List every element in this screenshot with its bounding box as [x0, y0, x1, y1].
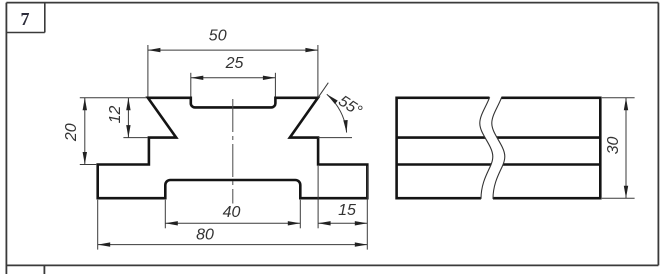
svg-text:20: 20 — [63, 123, 80, 142]
dimension 25 — [191, 73, 276, 97]
dimension 12 — [123, 98, 147, 138]
svg-text:15: 15 — [338, 202, 356, 219]
svg-text:50: 50 — [209, 28, 227, 45]
dimension 15 — [318, 166, 367, 228]
svg-text:7: 7 — [21, 9, 30, 29]
dimension 30 — [602, 98, 635, 198]
side view outline — [397, 98, 601, 198]
side view edge line upper — [397, 136, 601, 139]
horizontal extension — [318, 137, 352, 139]
side view edge line lower — [397, 163, 601, 166]
dimension 50 — [148, 45, 318, 97]
svg-text:25: 25 — [225, 55, 244, 72]
dimension 80 — [98, 166, 368, 250]
svg-text:40: 40 — [223, 204, 241, 221]
front view outline — [98, 98, 368, 198]
sheet number box — [6, 3, 44, 33]
dimension 20 — [80, 98, 147, 165]
dimension 40 — [165, 200, 300, 229]
centerline — [232, 99, 234, 204]
svg-text:80: 80 — [196, 227, 214, 244]
dimension 55 degrees — [318, 83, 352, 138]
break line right — [492, 97, 505, 199]
svg-text:12: 12 — [107, 106, 124, 124]
break band white — [480, 96, 505, 200]
svg-text:30: 30 — [605, 137, 622, 155]
break line left — [480, 97, 493, 199]
slant extension — [318, 83, 328, 98]
arc — [327, 94, 347, 132]
